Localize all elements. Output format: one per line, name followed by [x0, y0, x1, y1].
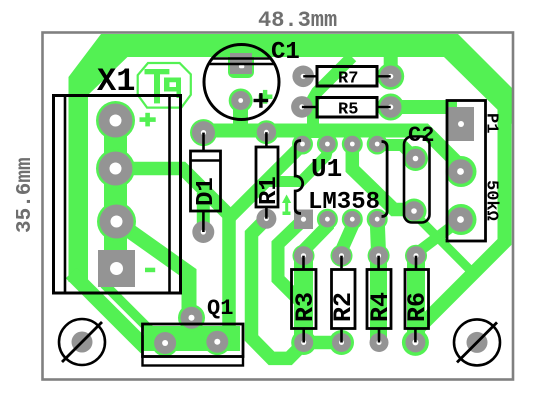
svg-text:U1: U1	[311, 154, 342, 184]
pad X1-3	[100, 205, 134, 239]
potentiometer P1 outline	[447, 101, 486, 242]
pad X1-4 square	[98, 250, 135, 287]
diode D1 outline	[191, 151, 221, 211]
svg-text:R5: R5	[338, 101, 358, 120]
wire D1 bottom pad stub	[197, 193, 210, 233]
X1 plus mark	[140, 117, 156, 122]
svg-text:R1: R1	[256, 176, 283, 205]
svg-text:R4: R4	[366, 292, 395, 322]
svg-text:P1: P1	[482, 113, 501, 133]
pad X1-2	[99, 152, 133, 186]
pad C1 plus square	[230, 53, 252, 74]
X1 minus mark	[145, 268, 155, 273]
pads Q1	[181, 307, 203, 329]
wire Q1 body band	[144, 326, 240, 351]
wire X1 pads column trace	[104, 107, 127, 266]
pad R7 right	[380, 66, 402, 88]
pad X1-1	[99, 104, 133, 138]
resistor R7 outline	[317, 67, 377, 87]
connector X1 outline	[54, 96, 181, 294]
svg-text:R2: R2	[329, 292, 358, 322]
pad R1 top	[257, 123, 276, 142]
wire P1 bottom pad to R6 top pad	[416, 220, 461, 256]
wire U1 pin3 to R2 top pad	[342, 219, 353, 256]
pad P1 middle	[448, 159, 473, 184]
wire R4 body fill	[370, 258, 387, 342]
pads U1 top row 8,7,6,5	[294, 136, 310, 152]
pad C1 minus	[231, 91, 250, 110]
wire R7 right pad up to bar	[384, 55, 398, 76]
green silk marks	[138, 63, 450, 305]
mount hole discs	[72, 332, 93, 353]
resistor R1 outline	[256, 147, 278, 207]
wire C1 bottom pad stem	[233, 99, 248, 131]
wire top bar to R7 area vertical	[313, 57, 352, 138]
green pad rings	[96, 63, 477, 357]
mount hole bottom-right	[454, 319, 500, 365]
svg-text:R7: R7	[338, 70, 358, 89]
pads U1 bottom row 2,3,4	[319, 211, 335, 227]
svg-text:R3: R3	[291, 292, 320, 322]
mount hole bottom-left	[59, 319, 105, 365]
wire U1 pin4 to R4 top pad	[377, 219, 378, 256]
pad U1 pin1 square	[294, 210, 313, 230]
svg-text:R6: R6	[403, 292, 432, 322]
svg-text:LM358: LM358	[308, 189, 380, 216]
capacitor C1 outline	[204, 45, 279, 120]
pad D1 bottom	[192, 221, 214, 243]
logo Tg octagon	[138, 63, 191, 108]
board outline	[43, 33, 514, 380]
wire right vertical trace to R6	[415, 95, 504, 342]
C1 black plus	[254, 93, 269, 108]
wire C2 bottom pad to right bar diagonal	[414, 213, 479, 278]
wire X1 pad3 to Q1 middle pad	[117, 222, 192, 317]
pad R7 left	[292, 66, 314, 88]
resistor R4 outline	[367, 270, 391, 329]
resistor R6 outline	[405, 270, 429, 329]
BLACK SILKSCREEN	[54, 45, 501, 366]
wire elbow diagonal to Q1 left pad	[71, 273, 146, 348]
svg-text:D1: D1	[193, 177, 220, 206]
wire R3 bottom pad to R2 bottom pad	[304, 336, 342, 350]
wire X1 square pad to Q1 left pad diagonal	[104, 284, 163, 343]
pads resistors bottom row	[294, 333, 313, 352]
capacitor C2 outline	[404, 137, 430, 223]
pad R5 right	[380, 96, 402, 118]
svg-text:X1: X1	[97, 63, 135, 100]
svg-text:50kΩ: 50kΩ	[482, 180, 501, 221]
PAD HOLES	[110, 65, 465, 346]
transistor Q1 outline	[143, 324, 244, 357]
wire junction to U1 pin8	[230, 146, 302, 217]
wire R6 body fill	[407, 258, 425, 342]
wire main horizontal band D1 top pad to P1 middle pad	[204, 131, 462, 173]
pad R1 bottom	[256, 209, 276, 229]
resistor R5 outline	[317, 98, 377, 118]
resistor R2 outline	[332, 270, 356, 329]
svg-text:48.3mm: 48.3mm	[258, 8, 337, 33]
green dash right of R6	[440, 300, 450, 305]
C1 green plus	[259, 95, 273, 100]
wire U1 pin2 to R3 top pad	[304, 219, 328, 256]
wire C1 top pad blob	[228, 38, 254, 78]
dimension labels	[14, 8, 337, 233]
pad C2 bottom	[404, 201, 424, 221]
wire X1 pad2 to Q1 right pad	[116, 169, 229, 342]
GREEN COPPER LAYER	[69, 34, 513, 358]
wire branch to U1 pin7 via notch	[267, 148, 328, 182]
resistor R3 outline	[292, 270, 317, 329]
wire U1 pin5 to C2 top pad	[377, 145, 415, 158]
PADS	[72, 53, 488, 354]
wire R5 right pad to P1 top pad	[391, 100, 457, 114]
wire U1 pin1 down into R3 body	[278, 221, 302, 301]
svg-text:C1: C1	[271, 39, 300, 66]
wire U1 pin6 to C2 bottom pad	[352, 144, 413, 210]
pad C2 top	[406, 149, 426, 169]
wire top-left elbow diagonal	[69, 34, 128, 282]
svg-text:Q1: Q1	[207, 296, 233, 321]
wire top-right corner diagonal	[444, 34, 512, 124]
wire R3 body fill	[294, 258, 313, 342]
wire R1 bottom pad down to R3 bottom pad elbow	[252, 219, 304, 359]
svg-text:35.6mm: 35.6mm	[14, 157, 37, 233]
pad R5 left	[291, 96, 313, 118]
pad P1 bottom	[448, 207, 473, 232]
pads resistors top row R3 R2 R4 R6	[294, 246, 313, 265]
pad P1 top square	[448, 107, 474, 141]
U1 pin1 arrow mark	[283, 212, 291, 216]
op-amp U1 outline	[295, 141, 303, 214]
pad D1 top	[192, 121, 215, 144]
wire top power bar	[108, 34, 450, 57]
svg-text:C2: C2	[408, 123, 434, 148]
